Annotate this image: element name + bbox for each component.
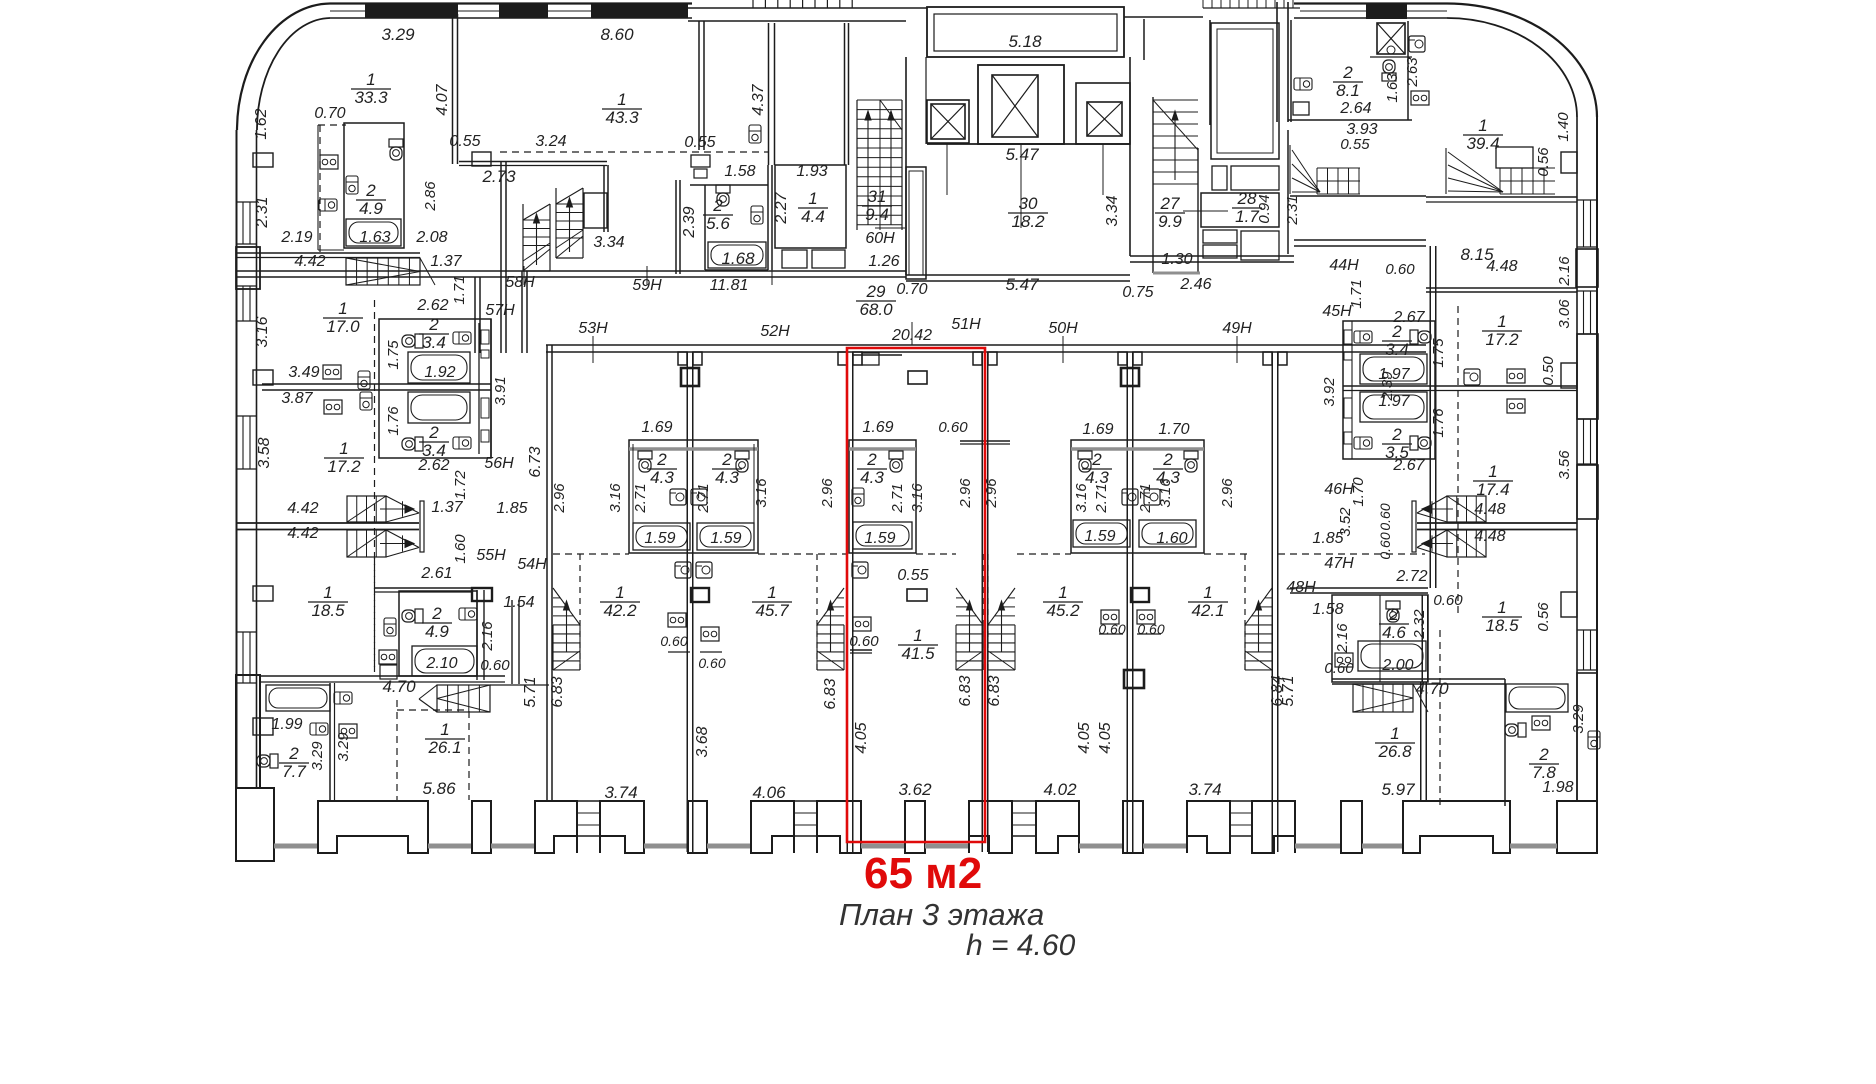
svg-text:18.5: 18.5 <box>311 601 345 620</box>
svg-text:0.60: 0.60 <box>1385 261 1415 278</box>
bath 4.9 / 2.10 <box>399 591 477 676</box>
svg-text:1: 1 <box>323 583 332 602</box>
right exterior wall <box>1596 117 1598 801</box>
svg-text:1: 1 <box>808 189 817 208</box>
wall x503 <box>500 161 502 353</box>
red unit outline 65m2 <box>847 348 985 842</box>
svg-text:30: 30 <box>1019 194 1038 213</box>
stairwell 31 9.4 <box>857 99 902 101</box>
svg-text:4.48: 4.48 <box>1474 528 1505 545</box>
svg-text:1.54: 1.54 <box>503 594 534 611</box>
duct right of stairwell <box>906 167 926 279</box>
svg-text:1.75: 1.75 <box>1430 338 1447 368</box>
mid piers on unit walls <box>691 588 709 602</box>
svg-text:2.16: 2.16 <box>1334 623 1351 654</box>
svg-text:31: 31 <box>868 187 887 206</box>
svg-text:2.64: 2.64 <box>1339 100 1371 117</box>
svg-text:0.56: 0.56 <box>1535 147 1552 177</box>
svg-text:2.16: 2.16 <box>1556 256 1573 287</box>
wall x521 <box>521 271 523 353</box>
svg-text:4.9: 4.9 <box>425 622 449 641</box>
svg-text:5.97: 5.97 <box>1381 780 1415 799</box>
svg-text:1.93: 1.93 <box>796 163 827 180</box>
washers at unit tops <box>675 562 691 578</box>
svg-text:1: 1 <box>1390 724 1399 743</box>
svg-text:0.60: 0.60 <box>1098 621 1125 637</box>
svg-text:1.59: 1.59 <box>644 530 675 547</box>
svg-text:3.29: 3.29 <box>309 741 326 771</box>
corridor walls left <box>237 252 420 254</box>
svg-text:2.62: 2.62 <box>416 297 448 314</box>
elevator shafts <box>927 100 969 143</box>
svg-text:2.39: 2.39 <box>681 206 698 238</box>
svg-text:58Н: 58Н <box>505 274 535 291</box>
svg-text:0.55: 0.55 <box>897 567 928 584</box>
svg-text:5.86: 5.86 <box>422 779 456 798</box>
svg-text:1.37: 1.37 <box>430 253 462 270</box>
dashed lines <box>319 125 321 255</box>
svg-text:52Н: 52Н <box>760 323 790 340</box>
svg-text:h = 4.60: h = 4.60 <box>966 929 1076 962</box>
svg-text:9.4: 9.4 <box>865 205 889 224</box>
room 4.4 walls <box>775 165 846 248</box>
unit divider walls <box>546 345 548 801</box>
bath pair 45.2/42.1 <box>1071 440 1204 553</box>
0.60 stub walls <box>960 440 985 442</box>
svg-text:68.0: 68.0 <box>859 300 893 319</box>
svg-text:0.60: 0.60 <box>1324 660 1354 677</box>
svg-text:4.42: 4.42 <box>287 525 318 542</box>
big double stair left 4.42/4.42 <box>347 496 386 522</box>
svg-text:3.16: 3.16 <box>753 478 770 508</box>
svg-text:1.75: 1.75 <box>385 340 402 370</box>
bath pair 42.2/45.7 <box>629 440 758 553</box>
svg-text:4.42: 4.42 <box>294 253 325 270</box>
svg-text:5.6: 5.6 <box>706 214 730 233</box>
svg-text:49Н: 49Н <box>1222 320 1252 337</box>
svg-text:45.7: 45.7 <box>755 601 789 620</box>
bottom right rooms <box>1332 678 1505 680</box>
svg-text:2: 2 <box>428 423 439 442</box>
svg-text:2: 2 <box>365 181 376 200</box>
top wall continuation to lobby <box>688 7 927 9</box>
svg-text:2: 2 <box>866 450 877 469</box>
svg-text:2.71: 2.71 <box>889 483 906 513</box>
svg-text:4.3: 4.3 <box>1156 468 1180 487</box>
svg-text:2.71: 2.71 <box>695 483 712 513</box>
vent rects 65m2 <box>908 371 927 384</box>
bath 4.6/2.00 <box>1332 595 1428 682</box>
svg-text:33.3: 33.3 <box>354 88 388 107</box>
svg-text:4.70: 4.70 <box>382 677 416 696</box>
svg-text:3.34: 3.34 <box>1104 195 1121 226</box>
svg-text:3.58: 3.58 <box>256 437 273 468</box>
svg-text:43.3: 43.3 <box>605 108 639 127</box>
svg-text:1: 1 <box>1058 583 1067 602</box>
svg-text:1.92: 1.92 <box>424 364 455 381</box>
svg-text:3.16: 3.16 <box>1073 483 1090 513</box>
svg-text:39.4: 39.4 <box>1466 134 1499 153</box>
svg-text:1.68: 1.68 <box>721 249 755 268</box>
svg-text:8.60: 8.60 <box>600 25 634 44</box>
svg-text:9.9: 9.9 <box>1158 212 1182 231</box>
svg-text:3.5: 3.5 <box>1385 443 1409 462</box>
svg-text:3.92: 3.92 <box>1321 377 1338 407</box>
svg-text:2: 2 <box>721 450 732 469</box>
svg-text:4.37: 4.37 <box>750 83 767 115</box>
svg-text:2.10: 2.10 <box>425 655 457 672</box>
svg-text:3.91: 3.91 <box>492 376 509 405</box>
svg-text:2.27: 2.27 <box>773 191 790 224</box>
svg-text:18.2: 18.2 <box>1011 212 1045 231</box>
svg-text:56Н: 56Н <box>484 455 514 472</box>
svg-text:2.71: 2.71 <box>1093 483 1110 513</box>
svg-text:0.70: 0.70 <box>314 105 345 122</box>
svg-text:17.0: 17.0 <box>326 317 360 336</box>
svg-text:2: 2 <box>1391 425 1402 444</box>
svg-text:2.72: 2.72 <box>1395 568 1427 585</box>
svg-text:4.05: 4.05 <box>1076 722 1093 753</box>
svg-text:5.18: 5.18 <box>1008 32 1042 51</box>
svg-text:2: 2 <box>1342 63 1353 82</box>
svg-text:42.2: 42.2 <box>603 601 637 620</box>
svg-text:1: 1 <box>440 720 449 739</box>
stair row 4.42 top <box>346 258 420 285</box>
svg-text:4.9: 4.9 <box>359 199 383 218</box>
svg-text:3.74: 3.74 <box>1188 780 1221 799</box>
svg-text:1.76: 1.76 <box>1430 408 1447 438</box>
svg-text:0.60: 0.60 <box>849 633 879 650</box>
small duct rects <box>691 155 710 167</box>
svg-text:47Н: 47Н <box>1324 555 1354 572</box>
svg-text:0.50: 0.50 <box>1540 356 1557 386</box>
wall 47H <box>1290 587 1428 589</box>
kitchen symbols right of bath <box>1464 369 1480 385</box>
svg-text:1.59: 1.59 <box>1084 528 1115 545</box>
svg-text:0.56: 0.56 <box>1535 602 1552 632</box>
unit stair flights <box>553 624 580 626</box>
svg-text:50Н: 50Н <box>1048 320 1078 337</box>
svg-text:3.4: 3.4 <box>422 333 446 352</box>
svg-text:3.29: 3.29 <box>381 25 415 44</box>
svg-text:3.87: 3.87 <box>281 390 313 407</box>
svg-text:1.99: 1.99 <box>271 716 302 733</box>
corridor top walls <box>237 270 906 272</box>
svg-text:2.96: 2.96 <box>819 478 836 509</box>
svg-text:27: 27 <box>1160 194 1180 213</box>
corridor long wall over units <box>546 344 1426 346</box>
svg-text:4.3: 4.3 <box>860 468 884 487</box>
svg-text:6.83: 6.83 <box>957 675 974 706</box>
svg-text:5.47: 5.47 <box>1005 145 1039 164</box>
svg-text:5.71: 5.71 <box>1280 675 1297 706</box>
svg-text:3.4: 3.4 <box>1385 340 1409 359</box>
svg-text:29: 29 <box>866 282 886 301</box>
svg-text:3.56: 3.56 <box>1556 450 1573 480</box>
svg-text:2.08: 2.08 <box>415 229 447 246</box>
svg-text:4.48: 4.48 <box>1474 501 1505 518</box>
svg-text:2.00: 2.00 <box>1381 657 1413 674</box>
svg-text:2: 2 <box>428 315 439 334</box>
exterior top-left corner arc <box>237 4 330 131</box>
kitchen stoves units <box>668 613 686 627</box>
svg-text:45.2: 45.2 <box>1046 601 1080 620</box>
svg-text:3.24: 3.24 <box>535 133 566 150</box>
svg-text:5.47: 5.47 <box>1005 275 1039 294</box>
svg-text:18.5: 18.5 <box>1485 616 1519 635</box>
svg-text:1.26: 1.26 <box>868 253 899 270</box>
top wall right section <box>1124 16 1203 18</box>
svg-text:2: 2 <box>1091 450 1102 469</box>
svg-text:41.5: 41.5 <box>901 644 935 663</box>
svg-text:48Н: 48Н <box>1286 579 1316 596</box>
svg-text:1: 1 <box>366 70 375 89</box>
svg-text:2.61: 2.61 <box>420 565 452 582</box>
svg-text:1.60: 1.60 <box>1156 530 1187 547</box>
svg-text:1: 1 <box>767 583 776 602</box>
right block bath box <box>1343 321 1435 459</box>
svg-text:2.19: 2.19 <box>280 229 312 246</box>
svg-text:1.71: 1.71 <box>451 275 468 304</box>
svg-text:51Н: 51Н <box>951 316 981 333</box>
svg-text:1: 1 <box>339 439 348 458</box>
svg-text:2.31: 2.31 <box>1284 195 1301 225</box>
svg-text:0.60: 0.60 <box>698 655 725 671</box>
svg-text:0.60: 0.60 <box>660 633 687 649</box>
svg-text:4.06: 4.06 <box>752 783 786 802</box>
svg-text:4.3: 4.3 <box>1085 468 1109 487</box>
wall 2.73 <box>459 161 607 163</box>
svg-text:1.85: 1.85 <box>496 500 527 517</box>
svg-text:65 м2: 65 м2 <box>864 849 982 898</box>
svg-text:3.16: 3.16 <box>254 316 271 347</box>
svg-text:1: 1 <box>1488 462 1497 481</box>
svg-text:1: 1 <box>338 299 347 318</box>
left exterior wall <box>236 130 238 788</box>
svg-text:2: 2 <box>431 604 442 623</box>
svg-text:1.60: 1.60 <box>452 534 469 564</box>
left walls of stair room <box>698 21 700 150</box>
svg-text:2.63: 2.63 <box>1404 57 1421 88</box>
svg-text:1.63: 1.63 <box>1384 73 1401 103</box>
svg-text:1.59: 1.59 <box>710 530 741 547</box>
svg-text:1: 1 <box>1497 312 1506 331</box>
svg-text:4.4: 4.4 <box>801 207 825 226</box>
svg-text:53Н: 53Н <box>578 320 608 337</box>
svg-text:2.46: 2.46 <box>1179 276 1211 293</box>
svg-text:60Н: 60Н <box>865 230 895 247</box>
svg-text:1.72: 1.72 <box>452 470 469 500</box>
svg-text:11.81: 11.81 <box>710 277 749 294</box>
right corridor wall x1425 <box>1429 246 1431 588</box>
svg-text:4.3: 4.3 <box>650 468 674 487</box>
svg-text:55Н: 55Н <box>476 547 506 564</box>
svg-text:3.29: 3.29 <box>1570 704 1587 734</box>
svg-text:1: 1 <box>617 90 626 109</box>
svg-text:4.07: 4.07 <box>434 83 451 115</box>
left wall pilaster bumps <box>253 153 273 167</box>
bottom-left corridor wall <box>259 675 505 677</box>
svg-text:6.73: 6.73 <box>527 446 544 477</box>
svg-text:1: 1 <box>1497 598 1506 617</box>
svg-text:59Н: 59Н <box>632 277 662 294</box>
svg-text:0.60: 0.60 <box>1377 503 1393 530</box>
top wall piers <box>365 3 458 18</box>
svg-text:1: 1 <box>913 626 922 645</box>
svg-text:3.49: 3.49 <box>288 364 319 381</box>
svg-text:3.74: 3.74 <box>604 783 637 802</box>
wall 2.61 and room 18.5 <box>374 587 471 589</box>
svg-text:1: 1 <box>1203 583 1212 602</box>
shower+washer top right <box>1377 23 1405 54</box>
svg-text:6.83: 6.83 <box>549 676 566 707</box>
svg-text:42.1: 42.1 <box>1191 601 1224 620</box>
svg-text:4.70: 4.70 <box>1415 679 1449 698</box>
svg-text:5.71: 5.71 <box>522 676 539 707</box>
room 8.1 walls <box>1290 20 1292 122</box>
svg-text:2: 2 <box>288 744 299 763</box>
svg-text:6.83: 6.83 <box>986 675 1003 706</box>
svg-text:3.06: 3.06 <box>1556 299 1573 329</box>
svg-text:17.2: 17.2 <box>327 457 361 476</box>
svg-text:1: 1 <box>1478 116 1487 135</box>
svg-text:2: 2 <box>1538 745 1549 764</box>
svg-text:2: 2 <box>656 450 667 469</box>
svg-text:2.96: 2.96 <box>1219 478 1236 509</box>
svg-text:1.85: 1.85 <box>1312 530 1343 547</box>
walls around 27/28 <box>1143 19 1145 60</box>
exterior top wall lines <box>330 2 692 4</box>
svg-text:26.1: 26.1 <box>427 738 461 757</box>
svg-text:1.69: 1.69 <box>862 419 893 436</box>
door notch red unit top <box>852 354 902 356</box>
svg-text:1.70: 1.70 <box>1158 421 1189 438</box>
svg-text:2: 2 <box>1162 450 1173 469</box>
left bottom corner pier <box>236 788 274 861</box>
left mid bath boxes 3.4/1.92 <box>379 319 491 458</box>
room 28 boxes <box>1211 23 1279 159</box>
right wall pilaster bumps <box>1561 152 1577 173</box>
svg-text:44Н: 44Н <box>1329 257 1359 274</box>
svg-text:1.59: 1.59 <box>864 530 895 547</box>
svg-text:0.60: 0.60 <box>1433 592 1463 609</box>
svg-text:4.42: 4.42 <box>287 500 318 517</box>
winder stair W1 <box>1316 168 1318 194</box>
svg-text:28: 28 <box>1237 189 1257 208</box>
svg-text:1.37: 1.37 <box>431 499 463 516</box>
svg-text:2.39: 2.39 <box>1379 371 1396 402</box>
bottom crenellated wall <box>274 844 318 849</box>
svg-text:3.16: 3.16 <box>909 483 926 513</box>
svg-text:3.34: 3.34 <box>593 234 624 251</box>
svg-text:0.55: 0.55 <box>684 134 715 151</box>
svg-text:8.1: 8.1 <box>1336 81 1360 100</box>
svg-text:1.40: 1.40 <box>1555 112 1572 142</box>
top stair run right <box>1202 0 1204 8</box>
right wall pier blocks <box>1576 249 1598 287</box>
svg-text:0.60: 0.60 <box>1377 532 1393 559</box>
room 33.3 bath box <box>344 123 404 248</box>
svg-text:4.02: 4.02 <box>1043 780 1077 799</box>
svg-text:4.3: 4.3 <box>715 468 739 487</box>
svg-text:2.32: 2.32 <box>1411 609 1428 640</box>
elevator block <box>927 7 1124 57</box>
svg-text:0.60: 0.60 <box>938 419 968 436</box>
svg-text:4.6: 4.6 <box>1382 623 1406 642</box>
stair 4.70 bottom <box>437 685 490 712</box>
exterior top-right corner arc <box>1447 4 1597 118</box>
svg-text:2: 2 <box>1391 322 1402 341</box>
svg-text:2: 2 <box>712 196 723 215</box>
svg-text:54Н: 54Н <box>517 556 547 573</box>
svg-text:1.62: 1.62 <box>253 108 270 139</box>
ticks at unit dividers <box>678 352 687 365</box>
svg-text:3.29: 3.29 <box>335 732 352 762</box>
svg-text:4.05: 4.05 <box>1097 722 1114 753</box>
svg-text:2.96: 2.96 <box>957 478 974 509</box>
svg-text:1.76: 1.76 <box>385 406 402 436</box>
walls under lobby / room 30 <box>906 274 1130 276</box>
svg-text:1.63: 1.63 <box>359 229 390 246</box>
svg-text:26.8: 26.8 <box>1377 742 1412 761</box>
svg-text:0.94: 0.94 <box>1256 194 1273 223</box>
svg-text:17.4: 17.4 <box>1476 480 1509 499</box>
svg-text:1.70: 1.70 <box>1350 477 1367 507</box>
svg-text:0.55: 0.55 <box>1340 136 1370 153</box>
svg-text:1.69: 1.69 <box>1082 421 1113 438</box>
svg-text:2.73: 2.73 <box>481 167 516 186</box>
wall right block x1454? dashed <box>1457 306 1459 618</box>
svg-text:45Н: 45Н <box>1322 303 1352 320</box>
svg-text:3.68: 3.68 <box>694 726 711 757</box>
bath 65m2 unit <box>849 440 916 553</box>
svg-text:4.48: 4.48 <box>1486 258 1517 275</box>
svg-text:57Н: 57Н <box>485 302 515 319</box>
bath 5.6 <box>675 180 677 274</box>
right block stair double <box>1447 496 1486 522</box>
svg-text:2.96: 2.96 <box>983 478 1000 509</box>
svg-text:2.96: 2.96 <box>551 483 568 514</box>
winder stair W2 <box>1499 168 1501 194</box>
svg-text:4.05: 4.05 <box>853 722 870 753</box>
svg-text:20.42: 20.42 <box>891 327 932 344</box>
svg-text:2: 2 <box>1388 605 1399 624</box>
stair 3.34 <box>522 204 524 271</box>
right bottom corner pier <box>1557 801 1597 853</box>
bath 7.7 bottom-left <box>329 683 331 801</box>
svg-text:2.71: 2.71 <box>632 483 649 513</box>
svg-text:3.4: 3.4 <box>422 441 446 460</box>
svg-text:0.60: 0.60 <box>480 657 510 674</box>
svg-text:3.16: 3.16 <box>607 483 624 513</box>
svg-text:0.55: 0.55 <box>449 133 480 150</box>
dimension ticks <box>592 336 594 363</box>
svg-text:1.30: 1.30 <box>1161 251 1192 268</box>
svg-text:17.2: 17.2 <box>1485 330 1519 349</box>
svg-text:2.86: 2.86 <box>422 181 439 212</box>
svg-text:2.31: 2.31 <box>254 196 271 228</box>
divider piers <box>681 368 699 386</box>
svg-text:1.58: 1.58 <box>724 163 755 180</box>
svg-text:1.69: 1.69 <box>641 419 672 436</box>
top stair run steps <box>752 0 754 8</box>
svg-text:0.60: 0.60 <box>1137 621 1164 637</box>
kitchen wall 3.49 <box>262 383 379 385</box>
svg-text:0.75: 0.75 <box>1122 284 1153 301</box>
svg-text:3.62: 3.62 <box>898 780 932 799</box>
svg-text:6.83: 6.83 <box>822 678 839 709</box>
svg-text:План 3 этажа: План 3 этажа <box>839 897 1044 932</box>
